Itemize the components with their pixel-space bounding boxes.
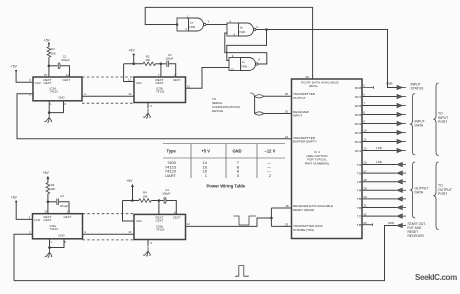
label TO INPUT PORT <box>438 112 448 125</box>
svg-text:TI3: TI3 <box>357 180 362 184</box>
node R4/C4 junction <box>158 199 161 202</box>
IC4 designator caption <box>305 150 330 165</box>
svg-text:10: 10 <box>231 68 235 72</box>
label INPUT STATUS <box>411 83 425 91</box>
wire TI7 to output driver <box>362 215 397 217</box>
dashed tie line bottoms of IC5A/IC5B <box>83 239 135 241</box>
svg-text:TI6: TI6 <box>357 206 362 210</box>
svg-text:CEXT: CEXT <box>156 219 164 223</box>
power wiring table rules <box>163 144 285 179</box>
driver for input status (RDA) <box>397 85 406 89</box>
wire loop to UART pin 20 <box>264 113 292 115</box>
label START OUTPUT AND RESET RECEIVER <box>408 222 427 238</box>
svg-text:74123: 74123 <box>156 228 165 232</box>
wire TI3 to output driver <box>362 181 397 183</box>
wire U1b output pin 6 across to input-status driver, down at right <box>256 30 397 88</box>
driver for RO1 <box>397 148 406 152</box>
svg-text:Power Wiring Table: Power Wiring Table <box>207 184 246 189</box>
driver for TI3 <box>397 180 406 184</box>
driver for RO3 <box>397 130 406 134</box>
svg-text:33: 33 <box>363 221 367 225</box>
svg-text:(RDA): (RDA) <box>309 84 318 88</box>
wire C4 to IC5B CEXT pin 6 <box>166 201 176 215</box>
node junction on U1b output <box>265 28 268 31</box>
label OUTPUT DATA <box>415 186 429 194</box>
svg-text:DEVICE: DEVICE <box>212 109 223 113</box>
svg-text:+5V: +5V <box>43 171 50 175</box>
wire junction to UART pin 18 <box>271 208 291 226</box>
one-shot IC5A 74123 box <box>33 214 83 239</box>
dashed tie line tops of IC5A/IC5B <box>83 213 135 215</box>
UART IC4 box <box>292 79 363 239</box>
wire latch feedback U1b out to U1c pin 9 <box>227 30 267 61</box>
wire TI6 to output driver <box>362 207 397 209</box>
wire +5V stem to R2 node <box>133 55 135 63</box>
svg-text:+5V: +5V <box>126 179 133 183</box>
svg-text:RO3: RO3 <box>355 131 362 135</box>
wire junction to C1 <box>49 65 58 67</box>
label TO OUTPUT PORT <box>438 184 452 197</box>
svg-text:74123: 74123 <box>156 90 165 94</box>
IC5A designator 74123 <box>50 224 59 231</box>
ground symbol under IC2B <box>143 109 150 118</box>
IC5A REXT/CEXT pin caption <box>44 215 52 222</box>
driver for RO5 <box>397 112 406 116</box>
svg-text:10K: 10K <box>50 187 55 191</box>
ground symbol under IC2A <box>44 113 51 122</box>
svg-text:LSB: LSB <box>376 146 382 150</box>
wire IC5B pin 9 to ground <box>147 240 149 247</box>
wire UART pin 22 TBMT to IC2A pin 2 <box>17 94 292 139</box>
svg-text:OUTPUT: OUTPUT <box>293 96 306 100</box>
svg-text:7400: 7400 <box>241 64 248 68</box>
node R3/C3 junction <box>47 201 50 204</box>
wire node to R4 <box>123 200 139 202</box>
label TO SERIAL COMMUNICATIONS DEVICE <box>212 97 240 113</box>
wire RO7 to input driver <box>362 96 397 98</box>
wire R1 to IC2A pin 15 <box>48 57 50 77</box>
wire RO2 to input driver <box>362 141 397 143</box>
node R2/C2 junction <box>160 63 163 66</box>
svg-text:10: 10 <box>128 92 132 96</box>
wire junction to C3 <box>48 201 56 203</box>
node RDAR/TDS junction <box>270 217 273 220</box>
svg-text:CEXT: CEXT <box>44 218 52 222</box>
wire IC5A pin 1 to ground <box>49 239 51 248</box>
svg-text:CEXT: CEXT <box>173 78 181 82</box>
svg-text:CEXT: CEXT <box>44 81 52 85</box>
svg-text:10K: 10K <box>142 194 147 198</box>
svg-text:CLR: CLR <box>136 81 142 85</box>
svg-text:SDR: SDR <box>388 221 394 225</box>
wire R4 to C4 <box>151 200 163 202</box>
one-shot IC2A 74123 box <box>33 77 82 101</box>
svg-text:PART NUMBERS): PART NUMBERS) <box>305 161 330 165</box>
capacitor C2 <box>167 61 169 67</box>
receiver input caption <box>293 110 310 118</box>
pulse waveform (positive-going) on bottom rail <box>235 266 249 277</box>
svg-text:100pF: 100pF <box>165 56 173 60</box>
svg-text:RO8: RO8 <box>355 86 362 90</box>
wire C3 to IC5A pin 14 <box>59 202 69 214</box>
wire RO4 to input driver <box>362 123 397 125</box>
driver for TI6 <box>397 205 406 209</box>
ground symbol under IC5B <box>143 247 150 256</box>
svg-text:RECEIVER: RECEIVER <box>408 234 425 238</box>
svg-text:CEXT: CEXT <box>64 215 72 219</box>
svg-text:7400: 7400 <box>189 25 196 29</box>
wire RO8 stub (no connection) <box>362 86 374 89</box>
svg-text:PORT: PORT <box>438 120 447 124</box>
wire TI2 to output driver <box>362 172 397 174</box>
svg-text:CLR: CLR <box>136 219 142 223</box>
power +5V above IC2B <box>128 49 135 56</box>
svg-text:CEXT: CEXT <box>156 81 164 85</box>
wire R3 to IC5A pin 15 <box>47 194 49 214</box>
wire IC5A pin 4 to IC5B pin 10 <box>83 233 135 235</box>
wire RO1 to input driver <box>362 150 397 152</box>
svg-text:RO2: RO2 <box>355 140 362 144</box>
svg-text:+5 V: +5 V <box>202 148 211 153</box>
receiver data available reset caption <box>293 204 333 212</box>
wire loop to UART pin 25 <box>264 95 292 97</box>
wire IC2B output pin 13 to U1c pin 10 <box>186 68 230 89</box>
wire IC2A pin 4 to IC2B pin 10 <box>82 95 134 97</box>
svg-text:.001µF: .001µF <box>61 58 70 62</box>
svg-text:74123: 74123 <box>50 227 59 231</box>
svg-text:TI2: TI2 <box>357 171 362 175</box>
bottom rail from IC5A pin 2 to start-output driver <box>14 226 397 281</box>
one-shot IC5B 74123 box <box>134 214 186 239</box>
svg-text:14: 14 <box>66 73 70 77</box>
dashed tie line bottoms of IC2A/IC2B <box>82 102 134 104</box>
svg-text:CEXT: CEXT <box>63 78 71 82</box>
svg-text:22: 22 <box>285 135 289 139</box>
svg-text:10: 10 <box>128 230 132 234</box>
IC5B REXT/CEXT pin caption <box>156 216 164 223</box>
wire +5V to IC5A CLR pin 3 <box>16 202 32 219</box>
wire TI1 to output driver <box>362 164 397 166</box>
svg-text:INPUT: INPUT <box>293 113 302 117</box>
resistor R3 <box>46 183 50 194</box>
svg-text:18: 18 <box>285 204 289 208</box>
connector loop to serial device (receiver input) <box>255 112 264 115</box>
svg-text:RO6: RO6 <box>355 104 362 108</box>
svg-text:C3: C3 <box>60 194 64 198</box>
svg-text:MSB: MSB <box>386 82 392 86</box>
svg-text:LSB: LSB <box>376 160 382 164</box>
svg-text:DATA: DATA <box>415 124 424 128</box>
driver for RO4 <box>397 121 406 125</box>
wire R2 to C2 <box>155 63 166 65</box>
node R1/C1 junction <box>48 65 51 68</box>
IC5B designator 74123 <box>156 224 165 231</box>
resistor R1 <box>47 47 51 57</box>
driver for RO2 <box>397 139 406 143</box>
svg-text:+5V: +5V <box>128 49 135 53</box>
wire node to R2 <box>124 63 143 65</box>
svg-text:20: 20 <box>285 109 289 113</box>
svg-text:TI4: TI4 <box>357 189 362 193</box>
svg-text:+5V: +5V <box>11 195 18 199</box>
table column Type values <box>165 160 177 178</box>
nand gate U1c 7400 (pins 9,10 -> 8) <box>229 58 258 71</box>
wire IC2B pin 9 to ground <box>147 103 149 109</box>
svg-text:CLR: CLR <box>34 218 40 222</box>
driver start output <box>397 223 406 227</box>
svg-text:74123: 74123 <box>50 90 59 94</box>
node junction at U1a inputs <box>176 23 179 26</box>
capacitor C4 <box>164 197 166 203</box>
wire +5V to IC2A CLR pin 3 <box>16 72 33 83</box>
nand gate U1a 7400 (pins 1,2 -> 3) <box>177 18 206 31</box>
svg-text:CEXT: CEXT <box>173 216 181 220</box>
driver for TI1 <box>397 162 406 166</box>
capacitor C1 <box>58 63 60 69</box>
svg-text:TI7: TI7 <box>357 214 362 218</box>
power +5V supply at far left <box>11 65 18 72</box>
wire RO6 to input driver <box>362 105 397 107</box>
svg-text:GND: GND <box>58 96 64 100</box>
IC2B designator 74123 <box>156 86 165 93</box>
driver for TI2 <box>397 171 406 175</box>
svg-text:11: 11 <box>128 77 131 81</box>
svg-text:UART: UART <box>165 173 176 178</box>
svg-text:10K: 10K <box>145 58 150 62</box>
svg-text:RO4: RO4 <box>355 122 362 126</box>
svg-text:TI8: TI8 <box>357 223 362 227</box>
wire RDA net: UART pin 19 up, across top, down to gate U1a inputs <box>145 7 312 79</box>
svg-text:RO5: RO5 <box>355 113 362 117</box>
svg-text:12: 12 <box>187 222 191 226</box>
table column GND values <box>237 160 240 178</box>
svg-text:TI1: TI1 <box>357 163 362 167</box>
node ground joint IC5A <box>48 246 51 249</box>
wire C1 to IC2A pin 14 <box>60 66 69 77</box>
wire +5V arrow to R3 <box>47 178 49 183</box>
svg-text:GND: GND <box>233 148 242 153</box>
svg-text:STATUS: STATUS <box>411 87 425 91</box>
label INPUT DATA <box>415 119 425 127</box>
svg-text:15: 15 <box>44 73 48 77</box>
resistor R4 <box>139 199 151 203</box>
svg-text:DATA: DATA <box>415 191 424 195</box>
nand gate U1b 7400 (pins 4,5 -> 6) <box>227 23 256 36</box>
wire between connector loops <box>254 96 256 113</box>
svg-text:100pF: 100pF <box>162 192 170 196</box>
brace output data group <box>410 162 415 218</box>
svg-text:19: 19 <box>305 75 309 79</box>
svg-text:TI5: TI5 <box>357 197 362 201</box>
node +5V/R2 junction <box>132 63 135 66</box>
wire TI8 stub (no connection) <box>362 223 373 226</box>
wire IC5B output pin 12 to RDAR/TDS junction <box>186 218 272 226</box>
wire junction down to IC2B REXT pin 7 <box>160 64 162 77</box>
table column +5V values <box>203 160 208 178</box>
svg-text:15: 15 <box>44 210 48 214</box>
transmitter buffer empty caption <box>293 136 317 144</box>
wire RO3 to input driver <box>362 132 397 134</box>
svg-text:RO7: RO7 <box>355 95 362 99</box>
wire C2 to IC2B CEXT pin 6 <box>169 64 176 77</box>
wire IC5A pin 2 left and down to bottom rail <box>14 234 33 280</box>
wire IC2A pin 8 to ground joint <box>49 101 63 113</box>
connector loop to serial device (transmitter output) <box>250 93 264 98</box>
wire node to IC5B CLR <box>123 201 135 222</box>
svg-text:+5V: +5V <box>44 38 51 42</box>
svg-text:RESET (RDAR): RESET (RDAR) <box>293 208 314 212</box>
wire IC5A pin 8 to ground joint <box>50 239 65 248</box>
pulse waveform (negative-going) near TDS <box>234 216 257 225</box>
wire RO5 to input driver <box>362 114 397 116</box>
svg-text:GND: GND <box>58 234 64 238</box>
dashed tie line tops of IC2A/IC2B <box>82 76 134 78</box>
wire IC2A pin 1 to ground <box>48 101 50 113</box>
svg-text:SeekIC.com: SeekIC.com <box>415 273 457 282</box>
power +5V above R1 <box>44 38 51 44</box>
resistor R2 <box>143 62 155 66</box>
svg-text:+5V: +5V <box>11 65 18 69</box>
driver for RO6 <box>397 103 406 107</box>
transmitter output caption <box>293 92 316 100</box>
svg-text:23: 23 <box>285 222 289 226</box>
power +5V bottom far left <box>11 195 18 202</box>
node ground joint IC2A <box>48 111 51 114</box>
ground symbol under IC5A <box>45 248 52 257</box>
svg-text:Type: Type <box>167 148 177 153</box>
driver for TI7 <box>397 214 406 218</box>
svg-text:R1: R1 <box>51 47 55 51</box>
svg-text:RO1: RO1 <box>355 149 362 153</box>
wire +5V to R1 <box>48 44 50 47</box>
svg-text:10K: 10K <box>51 52 56 56</box>
wire node to IC2B CLR pin 11 <box>124 64 134 82</box>
svg-text:RCVR DATA AVAILABLE: RCVR DATA AVAILABLE <box>301 81 339 85</box>
svg-text:−12 V: −12 V <box>265 148 276 153</box>
svg-text:CLR: CLR <box>35 81 41 85</box>
svg-text:STROBE (TDS): STROBE (TDS) <box>293 228 314 232</box>
one-shot IC2B 74123 box <box>134 77 186 103</box>
svg-text:.001µF: .001µF <box>59 204 68 208</box>
wire U1a output pin 3 to U1b input pin 4 <box>206 24 227 26</box>
wire junction down to IC5B REXT pin 7 <box>158 201 160 215</box>
svg-text:25: 25 <box>285 92 289 96</box>
IC2B REXT/CEXT pin caption <box>156 78 164 85</box>
power +5V above R3 <box>43 171 50 179</box>
wire +5V stem to R4 node <box>132 186 134 201</box>
wire TI5 to output driver <box>362 198 397 200</box>
svg-text:PORT: PORT <box>438 192 447 196</box>
transmitter data strobe caption <box>293 224 323 232</box>
node +5V/R4 junction <box>131 199 134 202</box>
svg-text:7400: 7400 <box>239 30 246 34</box>
driver for TI4 <box>397 188 406 192</box>
IC2A designator 74123 <box>50 86 59 93</box>
power +5V above IC5B <box>126 179 134 187</box>
brace to input port <box>433 83 438 156</box>
wire latch feedback U1c out to U1b pin 5 <box>225 33 267 64</box>
svg-text:BUFFER EMPTY: BUFFER EMPTY <box>293 140 317 144</box>
brace input data group <box>410 94 415 156</box>
driver for TI5 <box>397 197 406 201</box>
table column -12V values <box>267 160 272 178</box>
IC2A REXT/CEXT pin caption <box>44 78 52 85</box>
wire TI4 to output driver <box>362 189 397 191</box>
brace to output port <box>433 162 438 230</box>
capacitor C3 <box>57 199 59 205</box>
driver for RO7 <box>397 94 406 98</box>
